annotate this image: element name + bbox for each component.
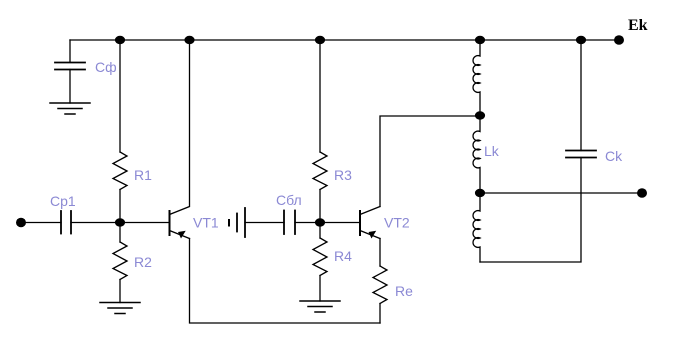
wire input to Cp1 <box>25 222 61 224</box>
node base VT2 divider <box>315 218 325 226</box>
wire VT2 emitter to Re <box>379 239 381 267</box>
node base VT1 divider <box>115 218 125 226</box>
node rail-R3 <box>315 36 325 44</box>
battery bias source <box>229 208 245 237</box>
wire top supply rail <box>70 39 619 41</box>
capacitor Cf <box>55 40 117 103</box>
wire node to VT2 base <box>320 222 360 224</box>
ground under Cf <box>50 103 90 114</box>
transistor VT2 <box>360 207 410 239</box>
wire output run <box>480 192 642 194</box>
svg-text:R3: R3 <box>334 167 352 183</box>
node Lk tap lower / output <box>475 189 485 197</box>
node rail-VT1 collector <box>184 36 194 44</box>
svg-text:Ck: Ck <box>605 148 623 164</box>
svg-text:R1: R1 <box>134 167 152 183</box>
node rail-R1 <box>115 36 125 44</box>
resistor Re <box>373 266 413 323</box>
capacitor Ck <box>566 40 623 164</box>
svg-text:R2: R2 <box>134 254 152 270</box>
inductor Lk upper section <box>473 40 480 116</box>
node Lk tap upper <box>475 111 485 119</box>
capacitor Cbl <box>276 192 302 234</box>
resistor R4 <box>313 223 352 302</box>
inductor Lk lower section <box>473 193 480 262</box>
resistor R3 <box>313 40 352 223</box>
wire Cp1 to node <box>71 222 120 224</box>
svg-text:R4: R4 <box>334 248 352 264</box>
ground under R2 <box>100 303 140 314</box>
svg-text:Lk: Lk <box>484 143 500 159</box>
wire battery to Cbl <box>245 222 284 224</box>
inductor Lk middle section <box>473 116 500 194</box>
resistor R2 <box>113 223 152 303</box>
node rail-Ck <box>576 36 586 44</box>
node rail-Lk <box>475 36 485 44</box>
input terminal <box>16 218 26 228</box>
svg-text:Ср1: Ср1 <box>50 193 76 209</box>
output terminal <box>637 188 647 198</box>
svg-text:Re: Re <box>395 283 413 299</box>
svg-text:VT2: VT2 <box>384 215 410 231</box>
svg-text:Ek: Ek <box>628 17 648 34</box>
svg-text:VT1: VT1 <box>193 215 219 231</box>
transistor VT1 <box>170 40 219 239</box>
wire Lk bottom to Ck bottom <box>480 158 581 263</box>
svg-text:Сбл: Сбл <box>276 192 302 208</box>
wire VT2 collector up to Lk tap <box>380 116 480 207</box>
resistor R1 <box>113 40 152 223</box>
wire VT1 emitter down and bottom run <box>190 239 381 324</box>
supply terminal Ek <box>614 17 648 45</box>
capacitor Cp1 <box>50 193 76 234</box>
wire Cbl to node <box>295 222 320 224</box>
wire node to VT1 base <box>120 222 170 224</box>
ground under R4 <box>300 301 340 312</box>
svg-text:Сф: Сф <box>95 59 117 75</box>
